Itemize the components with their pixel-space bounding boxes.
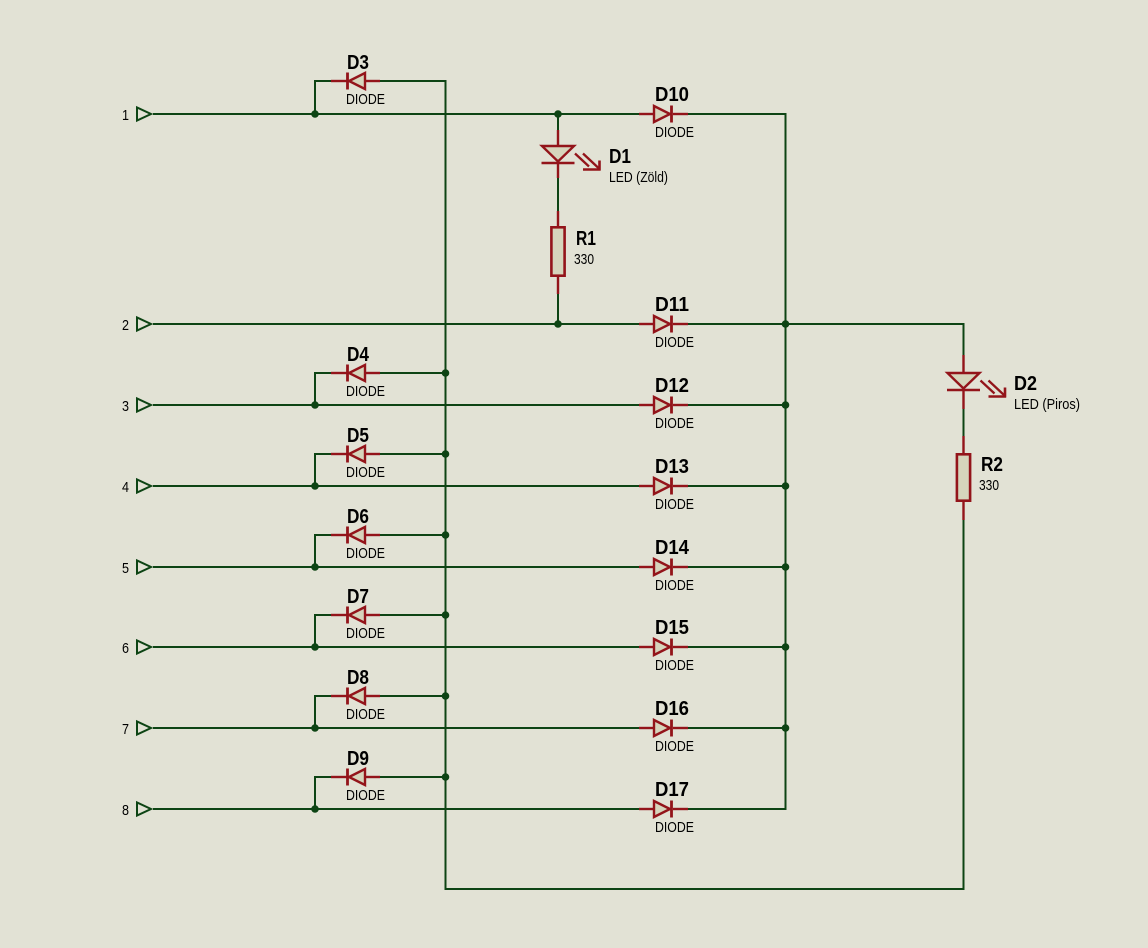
input terminal 1	[137, 108, 151, 121]
svg-text:DIODE: DIODE	[346, 787, 385, 804]
input terminal 6	[137, 641, 151, 654]
wire row 8 left segment	[153, 808, 639, 810]
svg-text:5: 5	[122, 560, 129, 577]
wire D3 left stub	[314, 80, 331, 82]
resistor R2	[957, 454, 970, 500]
input terminal 7	[137, 722, 151, 735]
diode D3	[331, 73, 380, 90]
wire row 5 right segment	[688, 566, 787, 568]
svg-text:DIODE: DIODE	[346, 383, 385, 400]
wire D8 right stub	[380, 695, 447, 697]
wire D7 right stub	[380, 614, 447, 616]
wire riser for D3 (x=315)	[314, 81, 316, 114]
wire row 3 left segment	[153, 404, 639, 406]
wire D1 column: LED to R1	[557, 178, 559, 211]
input terminal 2	[137, 318, 151, 331]
wire row 4 right segment	[688, 485, 787, 487]
wire D5 right stub	[380, 453, 447, 455]
svg-text:DIODE: DIODE	[346, 91, 385, 108]
svg-text:DIODE: DIODE	[346, 464, 385, 481]
LED D2 (red)	[947, 355, 1006, 409]
junction node (445,696)	[442, 692, 450, 700]
svg-text:DIODE: DIODE	[346, 706, 385, 723]
wire D6 right stub	[380, 534, 447, 536]
wire bypass bus vertical (x=446)	[445, 81, 447, 890]
svg-text:DIODE: DIODE	[655, 496, 694, 513]
junction node (785,324)	[782, 320, 790, 328]
diode D13	[639, 478, 688, 495]
junction node (315,728)	[311, 724, 319, 732]
junction node (315,647)	[311, 643, 319, 651]
wire bottom return	[445, 888, 965, 890]
diode D8	[331, 688, 380, 705]
diode D17	[639, 801, 688, 818]
wire stub R2 bottom lead	[962, 502, 964, 520]
diode D15	[639, 639, 688, 656]
diode D6	[331, 527, 380, 544]
junction node (558,324)	[554, 320, 562, 328]
svg-text:D3: D3	[347, 52, 369, 74]
svg-text:LED (Zöld): LED (Zöld)	[609, 169, 668, 186]
wire D2 column: row 2 corner to LED	[963, 324, 965, 355]
svg-text:D9: D9	[347, 748, 369, 770]
junction node (315,405)	[311, 401, 319, 409]
wire row 6 left segment	[153, 646, 639, 648]
svg-text:DIODE: DIODE	[346, 625, 385, 642]
junction node (785,486)	[782, 482, 790, 490]
svg-text:DIODE: DIODE	[346, 545, 385, 562]
svg-text:330: 330	[574, 251, 594, 268]
svg-text:8: 8	[122, 802, 129, 819]
junction node (558,114)	[554, 110, 562, 118]
svg-text:DIODE: DIODE	[655, 124, 694, 141]
svg-text:DIODE: DIODE	[655, 577, 694, 594]
svg-text:D12: D12	[655, 375, 689, 397]
wire row 1 right segment	[688, 113, 787, 115]
wire riser for D6 (x=315)	[314, 535, 316, 567]
wire D3 right stub	[380, 80, 447, 82]
wire row 8 right segment	[688, 808, 787, 810]
junction node (445,454)	[442, 450, 450, 458]
svg-text:D17: D17	[655, 779, 689, 801]
wire D8 left stub	[314, 695, 331, 697]
svg-text:D2: D2	[1014, 373, 1037, 395]
svg-text:DIODE: DIODE	[655, 415, 694, 432]
diode D4	[331, 365, 380, 382]
wire row 5 left segment	[153, 566, 639, 568]
svg-text:D11: D11	[655, 294, 689, 316]
wire D4 left stub	[314, 372, 331, 374]
svg-text:DIODE: DIODE	[655, 738, 694, 755]
wire row 2 left segment	[153, 323, 639, 325]
input terminal 8	[137, 803, 151, 816]
svg-text:DIODE: DIODE	[655, 334, 694, 351]
svg-text:D10: D10	[655, 84, 689, 106]
diode D7	[331, 607, 380, 624]
svg-text:D14: D14	[655, 537, 690, 559]
wire D9 right stub	[380, 776, 447, 778]
wire D1 column: junction to LED	[557, 114, 559, 130]
junction node (315,809)	[311, 805, 319, 813]
svg-text:6: 6	[122, 640, 129, 657]
svg-text:D16: D16	[655, 698, 689, 720]
wire row 1 left segment	[153, 113, 639, 115]
svg-text:R2: R2	[981, 454, 1003, 476]
wire row 3 right segment	[688, 404, 787, 406]
wire riser for D8 (x=315)	[314, 696, 316, 728]
diode D12	[639, 397, 688, 414]
junction node (785,405)	[782, 401, 790, 409]
wire riser for D4 (x=315)	[314, 373, 316, 405]
wire riser for D5 (x=315)	[314, 454, 316, 486]
junction node (445,615)	[442, 611, 450, 619]
svg-text:D15: D15	[655, 617, 689, 639]
wire D2 column lower segment	[963, 520, 965, 889]
diode D10	[639, 106, 688, 123]
LED D1 (green)	[542, 130, 601, 178]
svg-text:D1: D1	[609, 146, 631, 168]
wire D5 left stub	[314, 453, 331, 455]
input terminal 3	[137, 399, 151, 412]
wire D9 left stub	[314, 776, 331, 778]
input terminal 5	[137, 561, 151, 574]
junction node (445,777)	[442, 773, 450, 781]
svg-text:D4: D4	[347, 344, 370, 366]
diode D16	[639, 720, 688, 737]
diode D5	[331, 446, 380, 463]
wire riser for D9 (x=315)	[314, 777, 316, 809]
svg-text:R1: R1	[576, 228, 596, 250]
svg-text:3: 3	[122, 398, 129, 415]
svg-text:D7: D7	[347, 586, 369, 608]
svg-text:D8: D8	[347, 667, 369, 689]
svg-text:DIODE: DIODE	[655, 819, 694, 836]
junction node (315,567)	[311, 563, 319, 571]
wire D4 right stub	[380, 372, 447, 374]
svg-text:330: 330	[979, 477, 999, 494]
wire stub R2 top lead	[962, 436, 964, 453]
wire stub R1 top lead	[557, 211, 559, 226]
wire series bus vertical (x=786)	[785, 114, 787, 809]
wire D2 column: LED to R2	[963, 409, 965, 436]
wire row 7 left segment	[153, 727, 639, 729]
svg-text:2: 2	[122, 317, 129, 334]
input terminal 4	[137, 480, 151, 493]
svg-text:D13: D13	[655, 456, 689, 478]
junction node (315,486)	[311, 482, 319, 490]
wire row 4 left segment	[153, 485, 639, 487]
svg-text:7: 7	[122, 721, 129, 738]
diode D14	[639, 559, 688, 576]
svg-text:1: 1	[122, 107, 129, 124]
resistor R1	[551, 227, 564, 275]
junction node (785,647)	[782, 643, 790, 651]
svg-text:LED (Piros): LED (Piros)	[1014, 396, 1080, 413]
diode D11	[639, 316, 688, 333]
wire stub R1 bottom lead	[557, 277, 559, 294]
wire D7 left stub	[314, 614, 331, 616]
wire row 2 right segment	[688, 323, 965, 325]
junction node (785,567)	[782, 563, 790, 571]
junction node (445,373)	[442, 369, 450, 377]
svg-text:D6: D6	[347, 506, 369, 528]
junction node (315,114)	[311, 110, 319, 118]
svg-text:D5: D5	[347, 425, 369, 447]
wire row 7 right segment	[688, 727, 787, 729]
diode D9	[331, 769, 380, 786]
wire riser for D7 (x=315)	[314, 615, 316, 647]
wire row 6 right segment	[688, 646, 787, 648]
wire D1 column: R1 to row 2	[557, 294, 559, 324]
junction node (445,535)	[442, 531, 450, 539]
junction node (785,728)	[782, 724, 790, 732]
wire D6 left stub	[314, 534, 331, 536]
svg-text:4: 4	[122, 479, 129, 496]
svg-text:DIODE: DIODE	[655, 657, 694, 674]
